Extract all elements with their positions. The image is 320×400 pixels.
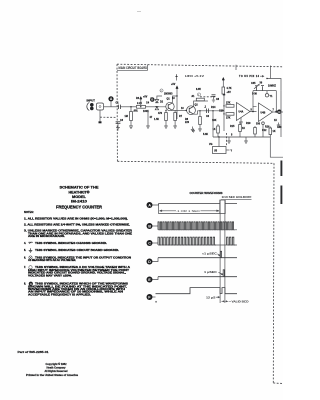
- E pulse label: [204, 271, 223, 275]
- pin circle on drop x263: [262, 122, 270, 137]
- svg-text:1K: 1K: [273, 131, 276, 133]
- waveform E transfer pulse: [223, 270, 224, 277]
- svg-text:2. ALL RESISTORS ARE 1/4-WATT: 2. ALL RESISTORS ARE 1/4-WATT 5%, UNLESS…: [24, 224, 130, 227]
- junction at x213 on signal path: [212, 110, 213, 111]
- capacitor C20 bypass at rail: [212, 95, 216, 102]
- chassis ground at input shield: [99, 117, 102, 123]
- test point circled letter A near input: [108, 96, 113, 107]
- ground below U4A: [239, 118, 243, 125]
- svg-text:1 μSEC: 1 μSEC: [204, 271, 217, 274]
- svg-text:D: D: [148, 260, 151, 264]
- main circuit board label box: [117, 65, 148, 71]
- capacitor C5 in series: [204, 107, 208, 114]
- main circuit board dashed outline: bottom-right exit: [273, 382, 283, 385]
- wire top-right corner entering loop area: [267, 79, 281, 91]
- waveform point A circle: [147, 202, 153, 208]
- note 8 waveform point symbol: [29, 282, 33, 286]
- waveform B 10MHz square wave band: [158, 222, 235, 230]
- trimmer capacitor C35 on loop: [251, 83, 259, 91]
- svg-text:3-36: 3-36: [252, 94, 258, 96]
- svg-text:TO U5 PIN 14: TO U5 PIN 14: [239, 75, 260, 78]
- svg-text:INPUT: INPUT: [87, 101, 96, 103]
- svg-text:HFO +5.1V: HFO +5.1V: [185, 75, 205, 78]
- svg-text:10MHZ: 10MHZ: [268, 86, 276, 88]
- wire J1 to board edge: [104, 106, 120, 108]
- resistor R16 vertical on rail: [222, 80, 232, 94]
- svg-text:Copyright © 1982: Copyright © 1982: [46, 363, 68, 366]
- wire Q1 collector up to +5V rail: [173, 96, 178, 103]
- note 4 chassis ground symbol: [29, 242, 33, 244]
- wire Q1 emitter to Q2 base: [172, 109, 186, 111]
- junction at U4B input: [252, 111, 254, 113]
- +5V arrow at top of rail: [171, 84, 178, 89]
- junction dot at x177 rail: [176, 95, 177, 96]
- underline under holdoff label: [221, 199, 252, 201]
- junction dot at Q2 base: [186, 110, 187, 111]
- resistor R18 to U4A pin3: [223, 113, 234, 120]
- svg-text:1/10 SEC HOLDOFF: 1/10 SEC HOLDOFF: [222, 196, 253, 199]
- small voltage circle near Q1: [160, 89, 163, 93]
- svg-text:MAIN CIRCUIT BOARD: MAIN CIRCUIT BOARD: [119, 66, 148, 70]
- svg-text:IM-2410: IM-2410: [71, 199, 88, 204]
- svg-text:1. ALL RESISTOR VALUES ARE IN: 1. ALL RESISTOR VALUES ARE IN OHMS (K=1,…: [24, 217, 128, 220]
- svg-text:470: 470: [158, 112, 163, 115]
- svg-text:C10: C10: [219, 111, 224, 113]
- stub A to plot: [153, 204, 159, 206]
- svg-text:ACCEPTABLE FREQUENCY IS APPLIE: ACCEPTABLE FREQUENCY IS APPLIED.: [28, 293, 91, 296]
- exit wire stub lower right edge: [280, 186, 282, 205]
- svg-text:1K: 1K: [274, 120, 277, 122]
- stub E to plot: [153, 277, 159, 280]
- svg-text:.1 OR 1 SEC: .1 OR 1 SEC: [176, 209, 200, 213]
- svg-text:NOTES:: NOTES:: [24, 210, 34, 214]
- junction node at R1 top: [130, 106, 132, 108]
- note 5 circuit board ground symbol: [29, 248, 33, 252]
- diode D1: [151, 99, 159, 103]
- wire Q2 emitter to output node: [194, 111, 225, 114]
- svg-text:7.: 7.: [24, 266, 26, 269]
- svg-text:5.: 5.: [24, 249, 26, 252]
- stub F to plot: [153, 296, 156, 298]
- svg-text:B: B: [148, 224, 151, 228]
- faint page smudge top center: [137, 11, 141, 13]
- svg-text:1K: 1K: [242, 128, 245, 130]
- test point ring at U4B output: [277, 110, 281, 114]
- svg-text:E: E: [148, 278, 151, 282]
- ground below R6: [173, 126, 177, 128]
- waveform A baseline: [159, 203, 238, 205]
- resistor R4 below Q1 base: [165, 110, 168, 126]
- small voltage circle label near Q2: [197, 93, 200, 97]
- svg-text:C: C: [148, 241, 151, 245]
- waveform C baseline: [158, 244, 237, 246]
- svg-text:27K: 27K: [226, 103, 231, 105]
- ground under U4B resistor: [270, 140, 272, 142]
- dashed internal line near C5: [200, 96, 215, 98]
- ground mid board: [191, 127, 194, 132]
- drop wire from U4A rail to bus: [223, 127, 225, 131]
- ground on bus x229: [227, 137, 231, 143]
- circuit board ground below R1: [129, 126, 133, 129]
- svg-text:U4A: U4A: [239, 111, 244, 114]
- main circuit board dashed outline: right leg down: [272, 163, 275, 383]
- waveform D baseline: [158, 257, 237, 259]
- exit wire stub upper right edge: [280, 161, 282, 177]
- reference line right (gate close): [224, 200, 226, 303]
- waveform C square wave band left: [158, 237, 216, 245]
- resistor R9 at Q2 collector: [196, 98, 208, 101]
- svg-text:A: A: [148, 203, 151, 207]
- svg-text:U4B: U4B: [261, 112, 266, 115]
- svg-text:R19: R19: [246, 123, 251, 125]
- svg-text:12 μS: 12 μS: [206, 296, 216, 299]
- svg-text:ARE IN MICROFARADS.: ARE IN MICROFARADS.: [28, 235, 65, 238]
- F label valid bcd: [229, 300, 231, 302]
- stub C to plot: [153, 242, 159, 244]
- waveform point D circle: [147, 259, 153, 265]
- svg-text:+5V: +5V: [171, 84, 176, 86]
- wire R2 to diode node: [146, 106, 157, 108]
- svg-text:C38: C38: [277, 127, 282, 129]
- svg-text:THIS SYMBOL INDICATES CIRCUIT: THIS SYMBOL INDICATES CIRCUIT BOARD GROU…: [35, 249, 119, 252]
- svg-text:COUNTER WAVEFORMS: COUNTER WAVEFORMS: [190, 191, 223, 195]
- wire U4B output right: [273, 111, 284, 113]
- op-amp U4A: [237, 103, 251, 121]
- svg-text:220: 220: [185, 122, 190, 124]
- svg-text:2N3563: 2N3563: [164, 94, 173, 96]
- F dimension arrow 12us: [216, 297, 220, 298]
- svg-text:+5V: +5V: [227, 92, 232, 94]
- wire bus to right exit corner: [270, 137, 283, 157]
- resistor R11 to ground: [198, 110, 202, 131]
- reference line left (gate open): [219, 200, 221, 303]
- note 6 voltage symbol: [29, 256, 32, 259]
- ground stubs under input stage: [146, 112, 153, 128]
- svg-text:4.7K: 4.7K: [227, 87, 232, 90]
- ground on bus x246: [244, 137, 248, 143]
- feedback loop top edge: [253, 90, 276, 92]
- svg-text:.001: .001: [133, 111, 138, 113]
- note 7 voltage circle symbol: [29, 266, 32, 269]
- wire diodes to Q1: [157, 96, 166, 107]
- svg-text:R15: R15: [230, 126, 235, 128]
- +5V supply arrow above R2: [140, 97, 148, 107]
- wire from signal path down to bus at x213: [212, 111, 214, 137]
- ground under C38 right: [277, 123, 280, 128]
- waveform B baseline: [158, 229, 237, 231]
- resistor R2 horizontal in series: [137, 103, 146, 108]
- svg-text:AS MEASURED WITH AN AC VOLTMET: AS MEASURED WITH AN AC VOLTMETER.: [28, 259, 76, 262]
- +5V rail vertical at x177: [176, 89, 178, 120]
- U4B output junction dot: [275, 111, 277, 113]
- svg-text:Printed in the United States o: Printed in the United States of America: [26, 374, 79, 377]
- junction on top-right wire: [266, 78, 267, 79]
- svg-text:4.: 4.: [24, 242, 26, 245]
- gate time dimension arrow right part: [201, 210, 220, 212]
- capacitor C36 on loop: [260, 83, 265, 91]
- dashed stub below U4A: [226, 133, 228, 146]
- wire C1 to node: [120, 106, 136, 108]
- D pulse label: [202, 253, 220, 256]
- svg-text:1.5K: 1.5K: [154, 119, 159, 121]
- svg-text:6.: 6.: [24, 256, 26, 259]
- wire stub crossing top edge at x236: [235, 65, 237, 70]
- main circuit board dashed outline: bottom edge: [117, 161, 274, 163]
- waveform E baseline: [158, 276, 237, 278]
- wire stub crossing top edge at x270: [270, 66, 272, 79]
- crystal Y1 hanging from loop: [265, 91, 273, 98]
- label to counter chain with arrow: [239, 75, 264, 78]
- sub block U5 outline: [213, 147, 227, 154]
- junction bus x219: [218, 136, 219, 137]
- label Y at sub block: [226, 150, 233, 153]
- svg-text:Heath Company: Heath Company: [47, 367, 67, 370]
- ground symbol far left bottom of board: [192, 129, 195, 133]
- svg-text:VOLTAGES MAY VARY ±20%.: VOLTAGES MAY VARY ±20%.: [28, 274, 72, 277]
- svg-text:C12: C12: [262, 130, 267, 132]
- ground below C2: [116, 128, 120, 130]
- op-amp U4B: [259, 103, 273, 122]
- feedback loop right edge: [275, 91, 277, 112]
- stub B to plot: [153, 225, 159, 227]
- resistor R27 on drop x270: [269, 127, 276, 138]
- left tick row A: [159, 204, 220, 214]
- vertical wire to U4A inputs: [223, 95, 225, 127]
- F valid BCD dimension arrows: [222, 301, 229, 302]
- junction dot main wire at x141: [140, 106, 141, 107]
- resistor R6 on Q1 emitter: [174, 110, 177, 125]
- ground below R4: [164, 126, 168, 128]
- resistor R1 (1M) vertical: [125, 107, 133, 126]
- capacitor C1 on input wire: [116, 103, 121, 110]
- wire Q2 collector up: [194, 101, 200, 106]
- svg-text:VALID BCD: VALID BCD: [232, 301, 249, 304]
- +5V arrow near label: [175, 74, 177, 80]
- svg-text:C35: C35: [251, 83, 256, 85]
- wire bus down to sub block: [218, 137, 220, 147]
- capacitor C2 on border: [116, 122, 121, 127]
- resistor R21 on drop x218: [213, 124, 220, 137]
- transistor Q2: [187, 105, 199, 115]
- svg-text:≈1 μSEC: ≈1 μSEC: [202, 253, 217, 256]
- wire U4A out to U4B in: [250, 106, 257, 111]
- svg-text:THIS SYMBOL INDICATES CHASSIS: THIS SYMBOL INDICATES CHASSIS GROUND.: [35, 242, 107, 245]
- svg-text:6.8V: 6.8V: [196, 89, 201, 91]
- input jack J1 (BNC connector): [87, 103, 104, 111]
- dashed shield wire to board: [100, 116, 117, 118]
- waveform point B circle: [147, 223, 153, 229]
- main circuit board dashed outline: left edge: [116, 64, 118, 161]
- waveform D reset pulse: [220, 251, 221, 257]
- +5V arrow on U4A rail: [223, 92, 231, 95]
- svg-text:27K: 27K: [226, 118, 231, 120]
- svg-text:All Rights Reserved: All Rights Reserved: [45, 370, 68, 373]
- svg-text:FREQUENCY COUNTER: FREQUENCY COUNTER: [56, 205, 103, 210]
- svg-text:100K: 100K: [143, 111, 149, 113]
- svg-text:5.6K: 5.6K: [203, 134, 208, 136]
- waveform C square wave band right: [227, 237, 236, 245]
- gate time dimension arrow left part: [160, 210, 177, 212]
- svg-text:+5V: +5V: [143, 97, 148, 99]
- svg-text:330: 330: [256, 124, 261, 126]
- main circuit board dashed outline: top edge: [117, 64, 283, 67]
- svg-text:1M: 1M: [125, 116, 128, 118]
- test point circled letter B at diode node: [150, 97, 154, 101]
- resistor R24 on drop x255: [254, 126, 257, 137]
- waveform point F circle: [147, 294, 153, 300]
- feedback loop left edge: [252, 91, 254, 107]
- svg-text:R14: R14: [211, 106, 216, 109]
- svg-text:Part of 595-2285-01: Part of 595-2285-01: [18, 350, 50, 354]
- resistor R17 to U4A pin2: [223, 103, 234, 108]
- svg-text:8.: 8.: [24, 283, 26, 286]
- transistor Q1: [166, 99, 174, 111]
- +5V arrow above R16: [222, 78, 224, 80]
- waveform point C circle: [147, 240, 153, 246]
- waveform F display strobe trace: [156, 288, 238, 294]
- lower bus wire: [213, 136, 270, 138]
- junction at diodes: [156, 106, 158, 108]
- right-edge vertical wire of oscillator: [280, 91, 282, 137]
- waveform point E circle: [147, 277, 153, 283]
- waveform A gate pulse: [220, 200, 225, 214]
- diode D2: [155, 102, 164, 110]
- resistor R22 on drop x240: [239, 122, 246, 137]
- svg-text:2.2K: 2.2K: [137, 103, 142, 105]
- svg-text:VG: VG: [209, 144, 213, 146]
- wire J1 shield drop: [99, 110, 101, 117]
- stub D to plot: [153, 258, 159, 262]
